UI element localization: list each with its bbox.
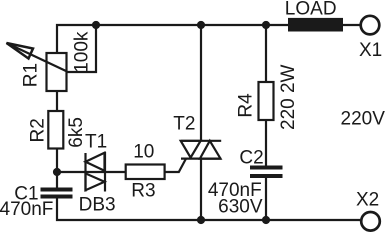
- junction dot middle rail / bottom rail: [197, 216, 205, 224]
- capacitor C1 bottom plate: [41, 195, 73, 199]
- junction dot node A: [53, 168, 61, 176]
- svg-text:220V: 220V: [341, 109, 385, 130]
- svg-text:T2: T2: [173, 114, 195, 135]
- svg-text:630V: 630V: [218, 197, 263, 218]
- junction dot right rail / bottom rail: [262, 216, 270, 224]
- wire R3 to T2 gate: [165, 159, 187, 172]
- svg-text:R3: R3: [131, 181, 155, 202]
- diac T1 upper triangle: [86, 153, 105, 171]
- wire R2 to node A and C1: [56, 149, 58, 188]
- diac T1 right bar: [104, 152, 106, 192]
- potentiometer R1 arrowhead: [7, 43, 34, 59]
- wire C2 to bottom rail: [265, 178, 267, 220]
- LOAD box: [288, 18, 343, 32]
- svg-text:X2: X2: [356, 190, 379, 211]
- wire R1 to R2: [56, 91, 58, 111]
- resistor R3 body: [126, 165, 165, 180]
- svg-text:T1: T1: [85, 131, 107, 152]
- resistor R4 body: [259, 82, 274, 120]
- svg-text:6k5: 6k5: [66, 117, 87, 148]
- junction dot wiper / top rail: [92, 21, 100, 29]
- svg-text:DB3: DB3: [79, 195, 116, 216]
- svg-text:R1: R1: [20, 63, 41, 87]
- terminal X2 circle: [361, 212, 380, 231]
- wire R1 wiper to top rail: [66, 27, 96, 72]
- wire node A to T1 diac and R3: [57, 171, 126, 173]
- junction dot right rail / top rail: [262, 21, 270, 29]
- svg-text:R2: R2: [28, 118, 49, 142]
- potentiometer R1 wiper shaft: [7, 43, 67, 71]
- diac T1 left bar: [84, 153, 86, 192]
- svg-text:10: 10: [133, 142, 154, 163]
- terminal X1 circle: [361, 16, 380, 35]
- svg-text:LOAD: LOAD: [285, 0, 337, 20]
- svg-text:C2: C2: [239, 147, 263, 168]
- wire top rail with left drop to R1: [57, 25, 288, 53]
- svg-text:X1: X1: [359, 40, 382, 61]
- capacitor C1 top plate: [41, 188, 73, 192]
- resistor R2 body: [48, 111, 63, 149]
- svg-text:R4: R4: [235, 93, 256, 118]
- svg-text:100k: 100k: [72, 31, 93, 73]
- wire LOAD to X1: [343, 24, 360, 26]
- capacitor C2 top plate: [250, 166, 283, 170]
- potentiometer R1 body: [47, 53, 67, 91]
- wire R4 to C2: [265, 120, 267, 166]
- triac T2 top bar: [181, 140, 222, 142]
- capacitor C2 bottom plate: [250, 174, 283, 178]
- diac T1 lower triangle: [86, 173, 105, 190]
- svg-text:470nF: 470nF: [0, 199, 53, 220]
- svg-text:220 2W: 220 2W: [278, 64, 299, 130]
- triac T2 bottom bar: [181, 158, 221, 160]
- wire C1 to bottom rail and bottom rail: [57, 199, 360, 221]
- wire middle rail bottom (T2 to bottom rail): [200, 159, 202, 220]
- junction dot middle rail / top rail: [197, 21, 205, 29]
- wire right rail top (top rail to R4): [265, 25, 267, 82]
- triac T2 left triangle: [181, 141, 201, 158]
- triac T2 right triangle: [200, 141, 221, 159]
- wire middle rail top (top rail to T2): [200, 25, 202, 141]
